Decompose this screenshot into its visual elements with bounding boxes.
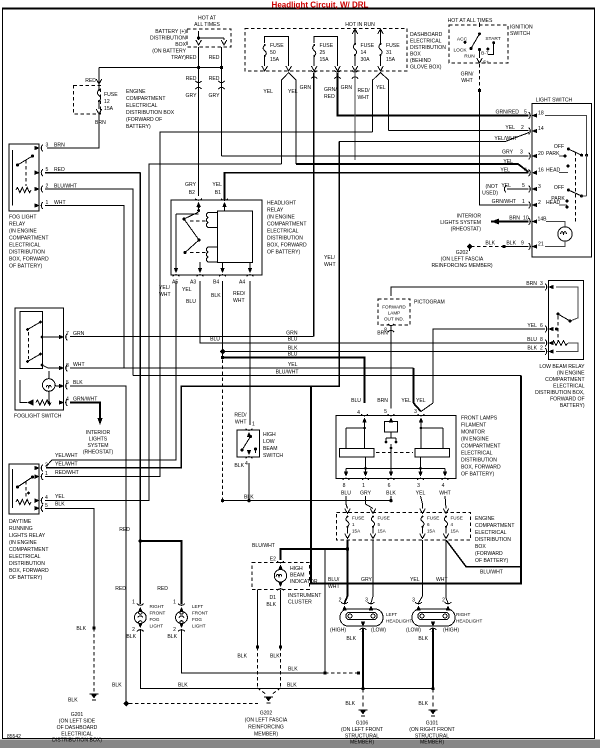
wire RED branch to left front fog light	[139, 539, 142, 542]
svg-text:G202: G202	[456, 250, 469, 256]
wire fuse31 split YEL YEL	[373, 73, 381, 133]
svg-text:SWITCH: SWITCH	[263, 453, 283, 459]
svg-text:5: 5	[384, 409, 387, 415]
svg-text:8: 8	[540, 337, 543, 343]
svg-text:G101: G101	[426, 721, 439, 727]
svg-text:1: 1	[45, 471, 48, 477]
svg-text:YEL: YEL	[500, 168, 510, 174]
svg-text:2: 2	[132, 627, 135, 633]
wire BLK right fog light to ground bus	[140, 630, 433, 689]
svg-text:3: 3	[365, 598, 368, 604]
svg-text:ACC: ACC	[457, 36, 468, 42]
svg-text:(RHEOSTAT): (RHEOSTAT)	[83, 450, 114, 456]
switch 2 OFF/PARK/HEAD	[551, 155, 586, 208]
svg-text:RED: RED	[115, 586, 126, 592]
svg-text:(IN ENGINE: (IN ENGINE	[9, 540, 37, 546]
svg-text:4: 4	[451, 522, 454, 527]
svg-text:RED: RED	[157, 586, 168, 592]
wire GRN foglight switch pin 7 bus	[70, 336, 314, 338]
svg-text:HEADLIGHT: HEADLIGHT	[456, 619, 482, 624]
svg-text:(ON BATTERY: (ON BATTERY	[152, 49, 186, 55]
wire BLK bus horizontal	[223, 500, 392, 502]
svg-text:(IN ENGINE: (IN ENGINE	[461, 437, 489, 443]
svg-text:BLK: BLK	[237, 654, 247, 660]
stub (NOT USED) pin 3	[504, 186, 528, 193]
svg-text:14: 14	[361, 50, 367, 56]
svg-text:OF DASHBOARD: OF DASHBOARD	[57, 725, 98, 731]
svg-text:BLK: BLK	[506, 241, 516, 247]
svg-text:BLK: BLK	[527, 346, 537, 352]
svg-text:ELECTRICAL: ELECTRICAL	[461, 451, 493, 457]
svg-text:YEL: YEL	[416, 398, 426, 404]
svg-text:YEL/: YEL/	[324, 255, 336, 261]
svg-text:1: 1	[522, 199, 525, 205]
interior lights system caption	[440, 214, 481, 233]
light switch pin 16 HEAD	[529, 169, 537, 176]
svg-text:3: 3	[417, 483, 420, 489]
svg-text:YEL: YEL	[505, 125, 515, 131]
svg-text:DISTRIBUTION: DISTRIBUTION	[9, 561, 45, 567]
svg-text:E2: E2	[270, 557, 276, 563]
headlight relay pin B2 top	[195, 199, 202, 207]
svg-text:BEAM: BEAM	[290, 573, 304, 579]
svg-text:BRN: BRN	[377, 331, 388, 337]
svg-text:YEL: YEL	[376, 85, 386, 91]
svg-text:FRONT: FRONT	[192, 611, 208, 616]
wire BLK foglight switch pin 5 to G202 diamond	[70, 386, 126, 701]
svg-text:B1: B1	[215, 190, 221, 196]
wire BLU/WHT fuse1 to left headlight high	[345, 549, 348, 603]
wire BLU/WHT bus	[133, 375, 521, 377]
left headlight	[339, 598, 383, 630]
high-low beam switch box	[237, 430, 260, 457]
svg-text:GRY: GRY	[209, 93, 221, 99]
svg-text:(LOW): (LOW)	[371, 628, 386, 634]
svg-text:RELAY: RELAY	[9, 222, 26, 228]
engine compartment fuse block 12 dashed box	[74, 86, 101, 115]
svg-text:GRN/WHT: GRN/WHT	[492, 199, 516, 205]
svg-text:HOT AT ALL TIMES: HOT AT ALL TIMES	[448, 18, 493, 24]
svg-text:2: 2	[45, 463, 48, 469]
svg-text:15A: 15A	[270, 57, 280, 63]
instrument cluster caption	[288, 593, 321, 606]
svg-text:BLK: BLK	[418, 701, 428, 707]
svg-text:(IN ENGINE: (IN ENGINE	[267, 215, 295, 221]
svg-text:WHT: WHT	[358, 95, 370, 101]
svg-text:ELECTRICAL: ELECTRICAL	[267, 229, 299, 235]
svg-text:OF BATTERY): OF BATTERY)	[267, 250, 301, 256]
svg-text:MONITOR: MONITOR	[461, 430, 485, 436]
svg-text:LIGHT: LIGHT	[192, 624, 206, 629]
svg-text:PARK: PARK	[551, 196, 565, 202]
svg-text:S+: S+	[483, 60, 489, 66]
fog light relay pin 5	[35, 169, 43, 176]
dashed convergence to G202	[258, 688, 268, 695]
high-low beam switch pin 1 top	[246, 429, 253, 437]
svg-text:SWITCH: SWITCH	[510, 31, 530, 37]
wire BLK pin 21 dashed to G202	[467, 244, 529, 252]
svg-text:GRY: GRY	[185, 182, 197, 188]
wire WHT monitor pin4 to fuse 4	[445, 496, 446, 509]
left front fog light caption	[192, 604, 208, 629]
svg-text:WHT: WHT	[159, 292, 171, 298]
svg-text:USED): USED)	[482, 191, 498, 197]
svg-text:4: 4	[357, 410, 360, 416]
fuse F4 15A	[443, 509, 449, 539]
svg-text:25: 25	[320, 50, 326, 56]
svg-text:BLU: BLU	[288, 337, 298, 343]
svg-text:BLK: BLK	[112, 683, 122, 689]
wire BLK high-low switch to BLK bus	[248, 463, 250, 501]
ground G202 reference caption (light switch)	[431, 250, 492, 269]
low beam relay box	[549, 281, 584, 360]
svg-text:YEL/WHT: YEL/WHT	[55, 453, 78, 459]
svg-text:HEADLIGHT: HEADLIGHT	[267, 201, 296, 207]
svg-text:31: 31	[386, 50, 392, 56]
svg-text:LEFT: LEFT	[386, 612, 397, 617]
monitor pin 8 bottom	[343, 472, 350, 480]
light switch pin 2 HEAD	[529, 202, 537, 209]
svg-text:LOCK: LOCK	[453, 48, 467, 54]
svg-text:COMPARTMENT: COMPARTMENT	[267, 222, 306, 228]
ground G201 wire	[92, 626, 95, 629]
node RED bus dots	[197, 66, 200, 69]
fuse F1 15A	[345, 509, 351, 539]
headlight relay pin A4 bottom	[247, 268, 254, 276]
svg-text:14: 14	[538, 126, 544, 132]
svg-text:GRY: GRY	[186, 93, 198, 99]
monitor pin 1 bottom	[362, 472, 369, 480]
engine fuse box dashed	[337, 513, 471, 541]
svg-text:BOX, FORWARD: BOX, FORWARD	[9, 257, 49, 263]
svg-text:OF BATTERY): OF BATTERY)	[475, 558, 509, 564]
svg-text:4: 4	[442, 483, 445, 489]
ignition switch internals	[464, 23, 496, 55]
wire fuse50 split to two YEL	[282, 73, 289, 165]
svg-text:15A: 15A	[104, 106, 114, 112]
svg-text:FUSE: FUSE	[270, 43, 284, 49]
high-low beam switch caption	[263, 432, 283, 459]
svg-text:RUNNING: RUNNING	[9, 526, 33, 532]
fog light relay pin 3	[35, 145, 43, 152]
svg-text:GRN: GRN	[341, 85, 353, 91]
battery box internal feed	[196, 31, 227, 45]
svg-text:BLK: BLK	[55, 502, 65, 508]
fuse F14 30A	[352, 29, 358, 71]
svg-text:RED: RED	[209, 55, 220, 61]
low beam relay pin 6	[545, 326, 553, 333]
monitor pin 5 top	[388, 414, 395, 422]
svg-text:ELECTRICAL: ELECTRICAL	[410, 39, 442, 45]
svg-text:BOX, FORWARD: BOX, FORWARD	[267, 243, 307, 249]
svg-text:BRN: BRN	[526, 281, 537, 287]
svg-text:WHT: WHT	[439, 491, 451, 497]
svg-text:MEMBER): MEMBER)	[254, 732, 278, 738]
svg-text:(ON LEFT FASCIA: (ON LEFT FASCIA	[245, 718, 288, 724]
svg-text:WHT: WHT	[73, 362, 85, 368]
svg-text:3: 3	[520, 150, 523, 156]
monitor pin 3 bottom	[417, 472, 424, 480]
ground G201 caption	[52, 712, 102, 744]
svg-text:REINFORCING: REINFORCING	[248, 725, 284, 731]
svg-text:YEL: YEL	[401, 398, 411, 404]
svg-text:15A: 15A	[352, 529, 361, 534]
svg-text:3: 3	[540, 281, 543, 287]
svg-text:B4: B4	[213, 280, 219, 286]
svg-text:BLK: BLK	[288, 667, 298, 673]
svg-text:A4: A4	[239, 280, 245, 286]
monitor caption	[461, 416, 501, 478]
svg-text:RED/WHT: RED/WHT	[55, 470, 79, 476]
svg-text:1: 1	[132, 600, 135, 606]
svg-text:ELECTRICAL: ELECTRICAL	[9, 554, 41, 560]
svg-text:BOX: BOX	[175, 42, 186, 48]
svg-text:15A: 15A	[427, 529, 436, 534]
svg-text:REINFORCING MEMBER): REINFORCING MEMBER)	[431, 263, 492, 269]
svg-text:HEADLIGHT: HEADLIGHT	[386, 619, 412, 624]
svg-text:GRY: GRY	[360, 491, 372, 497]
svg-text:YEL: YEL	[182, 287, 192, 293]
svg-text:DISTRIBUTION: DISTRIBUTION	[9, 250, 45, 256]
wire BRN low beam relay pin3 to pictogram	[391, 287, 545, 296]
svg-text:COMPARTMENT: COMPARTMENT	[126, 96, 165, 102]
wire BRN fuse12 to fog light relay pin 3	[47, 114, 99, 148]
svg-text:BOX: BOX	[410, 52, 421, 58]
svg-text:DISTRIBUTION: DISTRIBUTION	[150, 36, 186, 42]
svg-text:YEL: YEL	[288, 89, 298, 95]
svg-text:COMPARTMENT: COMPARTMENT	[9, 547, 48, 553]
svg-text:YEL: YEL	[527, 323, 537, 329]
wire YEL fuse31 left long run to DRL area	[45, 132, 373, 477]
wire GRY battery2 to pin 20	[222, 155, 529, 157]
battery (+) distribution box	[187, 29, 231, 47]
svg-text:OFF: OFF	[554, 185, 564, 191]
svg-text:LEFT: LEFT	[192, 604, 203, 609]
svg-text:(ON RIGHT FRONT: (ON RIGHT FRONT	[409, 727, 454, 733]
ground G106	[362, 689, 364, 708]
wire BLU/WHT fuse1 to high beam indicator E2	[281, 540, 348, 560]
svg-text:OF BATTERY): OF BATTERY)	[461, 472, 495, 478]
svg-text:BEAM: BEAM	[263, 446, 277, 452]
svg-text:BLK: BLK	[270, 654, 280, 660]
svg-text:HOT AT: HOT AT	[198, 16, 216, 22]
high-low beam switch internals	[241, 435, 258, 453]
svg-text:BLK: BLK	[234, 463, 244, 469]
foglight switch pin 4	[59, 399, 67, 406]
svg-text:BATTERY (+): BATTERY (+)	[155, 29, 186, 35]
svg-text:1: 1	[173, 600, 176, 606]
svg-text:PARK: PARK	[546, 151, 560, 157]
svg-text:WHT: WHT	[436, 577, 448, 583]
svg-text:6: 6	[388, 483, 391, 489]
svg-text:G201: G201	[71, 712, 84, 718]
foglight switch internals	[20, 312, 60, 406]
svg-text:YEL: YEL	[410, 577, 420, 583]
svg-text:(FORWARD: (FORWARD	[475, 551, 503, 557]
wire BLU monitor pin8 to fuse 1	[346, 496, 348, 509]
svg-text:BRN: BRN	[509, 216, 520, 222]
svg-text:RED: RED	[85, 78, 96, 84]
svg-text:FUSE: FUSE	[378, 516, 390, 521]
wire GRN/RED from fuse25 right to light switch pin 18	[338, 73, 529, 116]
svg-text:DISTRIBUTION: DISTRIBUTION	[461, 458, 497, 464]
svg-text:DISTRIBUTION BOX): DISTRIBUTION BOX)	[52, 738, 102, 744]
wire YEL/WHT from A5 to DRL pin 2 upper	[46, 281, 176, 467]
svg-text:3: 3	[46, 143, 49, 149]
headlight relay internals	[176, 205, 253, 268]
svg-text:5: 5	[522, 183, 525, 189]
svg-text:BLK: BLK	[211, 293, 221, 299]
svg-text:1: 1	[352, 522, 355, 527]
battery box caption	[150, 29, 187, 61]
monitor pin 4 top	[361, 414, 368, 422]
ignition switch box	[449, 25, 508, 63]
svg-text:DISTRIBUTION: DISTRIBUTION	[475, 537, 511, 543]
light switch pin 14	[529, 128, 537, 135]
svg-text:15A: 15A	[320, 57, 330, 63]
svg-text:FILAMENT: FILAMENT	[461, 423, 486, 429]
monitor pin 6 bottom	[388, 472, 395, 480]
svg-text:(IN ENGINE: (IN ENGINE	[9, 229, 37, 235]
DRL relay box	[9, 464, 39, 514]
svg-text:5: 5	[378, 522, 381, 527]
svg-text:BLK: BLK	[76, 626, 86, 632]
svg-text:2: 2	[339, 598, 342, 604]
high-low beam switch pin 4 bottom	[246, 450, 253, 458]
svg-text:HOT IN RUN: HOT IN RUN	[345, 22, 375, 28]
svg-text:(ON LEFT SIDE: (ON LEFT SIDE	[59, 719, 96, 725]
svg-text:FRONT LAMPS: FRONT LAMPS	[461, 416, 498, 422]
svg-text:2: 2	[521, 125, 524, 131]
fuse F25 15A box	[311, 36, 340, 71]
light switch internal feed from pin 18	[545, 116, 587, 156]
wire BLK from B4 down	[222, 281, 224, 350]
fuse 12 value label	[104, 92, 118, 112]
svg-text:LOW BEAM RELAY: LOW BEAM RELAY	[539, 364, 585, 370]
low beam relay pin 3	[545, 284, 553, 291]
wire BLK DRL pin 5 to G201	[45, 508, 94, 628]
svg-text:COMPARTMENT: COMPARTMENT	[545, 377, 584, 383]
mechanical link dashed	[575, 152, 577, 222]
engine fuse box caption	[475, 516, 514, 564]
svg-text:GRY: GRY	[502, 150, 514, 156]
svg-text:ALL TIMES: ALL TIMES	[194, 22, 220, 28]
light switch pin 3	[529, 186, 537, 193]
monitor pin 3 top	[418, 414, 425, 422]
light switch pin 14B	[529, 218, 537, 225]
svg-text:7: 7	[66, 331, 69, 337]
svg-text:LIGHTS RELAY: LIGHTS RELAY	[9, 533, 46, 539]
mystery vertical near instrument area	[324, 549, 326, 673]
svg-text:3: 3	[538, 184, 541, 190]
svg-text:1: 1	[362, 483, 365, 489]
right headlight caption	[456, 612, 482, 624]
svg-text:FUSE: FUSE	[352, 516, 364, 521]
svg-text:G106: G106	[356, 721, 369, 727]
svg-text:MEMBER): MEMBER)	[350, 740, 374, 746]
svg-text:BLU/: BLU/	[328, 577, 340, 583]
svg-text:IGNITION: IGNITION	[510, 25, 533, 31]
svg-text:GRN: GRN	[300, 85, 312, 91]
svg-text:BOX, FORWARD: BOX, FORWARD	[9, 568, 49, 574]
svg-text:DISTRIBUTION: DISTRIBUTION	[267, 236, 303, 242]
svg-text:BLK: BLK	[418, 636, 428, 642]
DRL relay caption	[9, 519, 49, 581]
wire GRN/WHT foglight switch pin 4 to interior lights arrow	[70, 403, 103, 426]
headlight relay caption	[267, 201, 307, 256]
svg-text:YEL: YEL	[55, 494, 65, 500]
monitor pin 4 bottom	[442, 472, 449, 480]
wire WHT fog relay pin 1 to foglight switch pin 8	[45, 206, 124, 369]
svg-text:LIGHT: LIGHT	[150, 624, 164, 629]
svg-text:15A: 15A	[451, 529, 460, 534]
wire V-merge into monitor pin 3	[413, 403, 421, 412]
high beam indicator bulb	[274, 561, 286, 590]
svg-text:YEL: YEL	[263, 89, 273, 95]
wire BLK cluster second ground	[257, 589, 259, 647]
svg-text:5: 5	[524, 110, 527, 116]
svg-text:RED: RED	[324, 94, 335, 100]
svg-text:9: 9	[521, 241, 524, 247]
svg-text:WHT: WHT	[233, 298, 245, 304]
svg-text:YEL: YEL	[503, 159, 513, 165]
svg-text:BLK: BLK	[287, 683, 297, 689]
wire YEL monitor pin3 to fuse 6	[421, 496, 423, 509]
svg-text:5: 5	[66, 380, 69, 386]
wire YEL lower (from headlight relay B1) to pin 16	[225, 173, 529, 200]
headlight relay box	[171, 200, 262, 275]
ground G101	[432, 689, 434, 708]
svg-text:A5: A5	[172, 280, 178, 286]
svg-text:10: 10	[523, 216, 529, 222]
svg-text:16: 16	[538, 168, 544, 174]
svg-text:FRONT: FRONT	[150, 611, 166, 616]
wire BLK dashed from B4 node down to BLK bus	[222, 354, 224, 501]
svg-text:2: 2	[540, 346, 543, 352]
svg-text:BLK: BLK	[386, 491, 396, 497]
svg-text:YEL/WHT: YEL/WHT	[494, 136, 517, 142]
svg-text:FUSE: FUSE	[451, 516, 463, 521]
svg-text:TRAY): TRAY)	[171, 55, 186, 61]
wire GRN / RED-WHT from fuse14 down	[354, 73, 356, 160]
svg-text:LOW: LOW	[263, 439, 275, 445]
svg-text:ELECTRICAL: ELECTRICAL	[126, 103, 158, 109]
fuse F12 15A	[96, 79, 102, 114]
svg-text:LIGHTS SYSTEM: LIGHTS SYSTEM	[440, 220, 481, 226]
svg-text:A3: A3	[190, 280, 196, 286]
svg-text:BRN: BRN	[377, 398, 388, 404]
foglight switch pin 5	[59, 383, 67, 390]
svg-text:PICTOGRAM: PICTOGRAM	[414, 300, 445, 306]
svg-text:BLK: BLK	[346, 636, 356, 642]
svg-text:2: 2	[173, 627, 176, 633]
light switch pin 20 PARK	[529, 153, 537, 160]
svg-text:BLU: BLU	[341, 491, 351, 497]
svg-text:WHT: WHT	[324, 262, 336, 268]
low beam relay pin 8	[545, 340, 553, 347]
svg-text:WHT: WHT	[235, 420, 247, 426]
wire RED/WHT from A4 to high-low beam switch	[249, 281, 251, 425]
headlight relay pin A3 bottom	[197, 268, 204, 276]
svg-text:YEL: YEL	[416, 491, 426, 497]
light switch pin 18	[529, 112, 537, 119]
wire BLU/WHT fog relay pin 2 to bus	[45, 189, 133, 376]
svg-text:BLU: BLU	[186, 299, 196, 305]
wire BLU bus 2 to monitor pin 4	[223, 358, 365, 404]
wire YEL fuse6 to right headlight low	[419, 540, 423, 603]
engine compartment electrical distribution box caption	[126, 89, 175, 130]
svg-text:HEAD: HEAD	[546, 168, 560, 174]
